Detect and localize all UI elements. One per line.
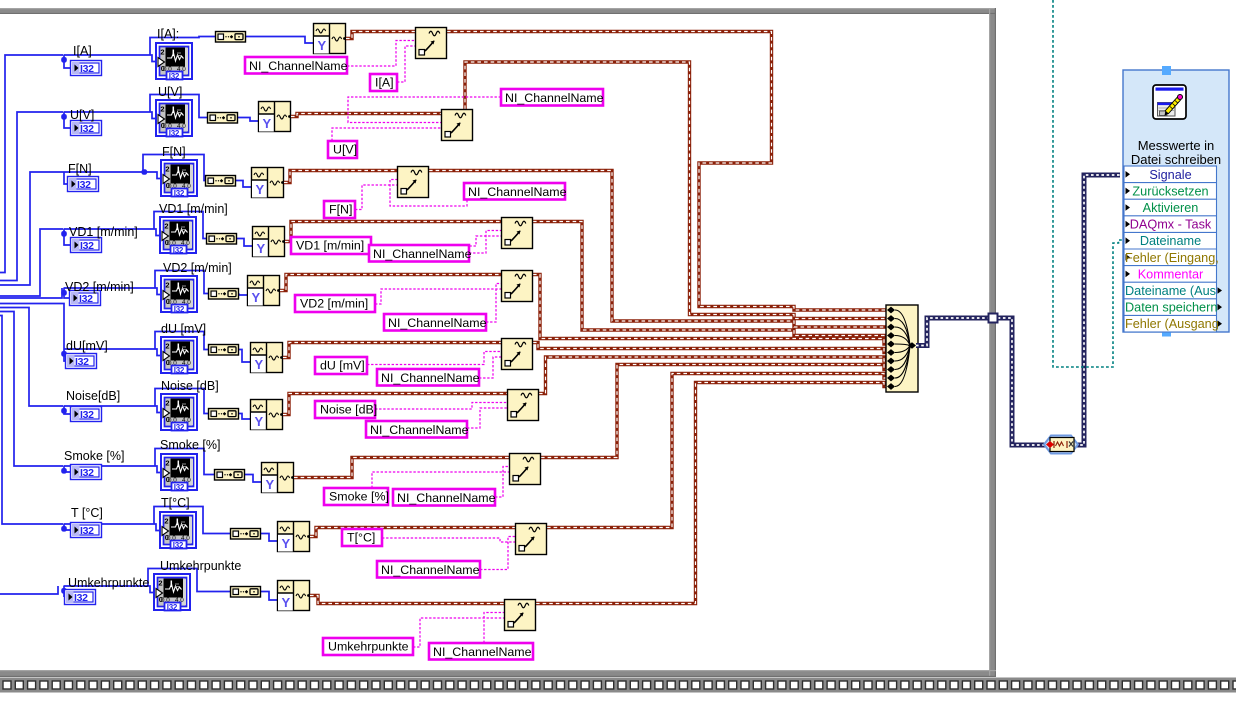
wire row 8 to chart (I32, blue) bbox=[64, 466, 167, 473]
svg-text:U[V]: U[V] bbox=[70, 108, 94, 122]
wire row 4 converter to Y node (I32, blue) bbox=[237, 239, 252, 247]
set dynamic data attributes node row 8 bbox=[510, 454, 541, 485]
Y attribute node row 7 bbox=[251, 400, 283, 430]
string constant "dU [mV]" bbox=[315, 357, 367, 374]
wire row 1 converter to Y node (I32, blue) bbox=[246, 37, 313, 44]
svg-text:Noise[dB]: Noise[dB] bbox=[66, 389, 120, 403]
property constant NI_ChannelName row 6 bbox=[377, 369, 480, 386]
Y attribute node row 3 bbox=[252, 168, 284, 198]
waveform chart T[°C] bbox=[160, 512, 196, 550]
svg-text:VD2 [m/min]: VD2 [m/min] bbox=[65, 280, 134, 294]
wire row 5 NI_ChannelName to set node (string, pink dotted) bbox=[486, 284, 501, 323]
wire row 9 to chart (I32, blue) bbox=[64, 524, 166, 531]
set dynamic data attributes node row 6 bbox=[502, 339, 533, 370]
waveform chart dU [mV] bbox=[161, 337, 197, 375]
wire row 2 NI_ChannelName to set node (string, pink dotted) bbox=[348, 97, 501, 123]
wire row 7 name constant to set node (string, pink dotted) bbox=[375, 403, 507, 410]
wire row 7 over-chart to converter (I32, blue) bbox=[155, 389, 208, 414]
svg-text:VD1 [m/min]: VD1 [m/min] bbox=[69, 225, 138, 239]
wire row 1 NI_ChannelName to set node (string, pink dotted) bbox=[347, 41, 415, 67]
string constant "Smoke [%]" bbox=[324, 488, 389, 505]
svg-text:Kommentar: Kommentar bbox=[1138, 267, 1204, 281]
loop tunnel bbox=[989, 314, 998, 323]
wire row 10 converter to Y node (I32, blue) bbox=[261, 592, 277, 601]
svg-text:U[V]: U[V] bbox=[158, 85, 182, 99]
wire row 7 to chart (I32, blue) bbox=[64, 406, 167, 413]
wire row 4 Y-node to set-attribute node (waveform data, brown dashed) bbox=[285, 222, 501, 242]
Y attribute node row 2 bbox=[259, 102, 291, 132]
property constant NI_ChannelName row 9 bbox=[377, 561, 480, 578]
waveform chart VD2 [m/min] bbox=[161, 276, 197, 314]
convert to dynamic data node row 9 bbox=[231, 529, 261, 540]
convert-to-dynamic-data coercion node bbox=[1044, 436, 1078, 454]
wire row 1 over-chart to converter (I32, blue) bbox=[150, 37, 215, 56]
junction dot row 3 bbox=[142, 169, 148, 175]
svg-text:Umkehrpunkte: Umkehrpunkte bbox=[68, 576, 149, 590]
junction dot row 6 bbox=[61, 351, 67, 357]
svg-text:U[V]: U[V] bbox=[333, 143, 357, 157]
svg-text:Daten speichern: Daten speichern bbox=[1125, 301, 1217, 315]
wire row 4 terminal stub (I32, blue) bbox=[64, 229, 70, 245]
merge signals function bbox=[886, 305, 918, 392]
wire row 10 name constant to set node (string, pink dotted) bbox=[413, 618, 504, 647]
wire row 2 Y-node to set-attribute node (waveform data, brown dashed) bbox=[291, 114, 441, 117]
waveform chart U[V] bbox=[156, 100, 192, 138]
convert to dynamic data node row 5 bbox=[209, 289, 239, 300]
svg-text:Smoke [%]: Smoke [%] bbox=[160, 438, 220, 452]
wire row 7 NI_ChannelName to set node (string, pink dotted) bbox=[467, 408, 507, 428]
svg-text:Umkehrpunkte: Umkehrpunkte bbox=[160, 559, 241, 573]
I32 terminal dU[mV] bbox=[66, 354, 97, 369]
convert to dynamic data node row 10 bbox=[231, 587, 261, 598]
wire row 4 name constant to set node (string, pink dotted) bbox=[371, 236, 501, 246]
convert to dynamic data node row 1 bbox=[216, 32, 246, 43]
string constant "T[°C]" bbox=[342, 529, 382, 546]
wire row 10 set-attribute node to merge (waveform data, brown dashed) bbox=[536, 383, 886, 604]
wire row 1 Y-node to set-attribute node (waveform data, brown dashed) bbox=[346, 32, 415, 39]
wire row 5 to chart (I32, blue) bbox=[64, 288, 167, 295]
I32 terminal U[V] bbox=[71, 121, 102, 136]
svg-text:Smoke [%]: Smoke [%] bbox=[329, 490, 389, 504]
svg-text:NI_ChannelName: NI_ChannelName bbox=[505, 91, 604, 105]
I32 terminal VD2 [m/min] bbox=[70, 291, 101, 306]
wire row 6 set-attribute node to merge (waveform data, brown dashed) bbox=[533, 343, 886, 353]
wire row 6 NI_ChannelName to set node (string, pink dotted) bbox=[479, 357, 501, 378]
property constant NI_ChannelName row 5 bbox=[384, 314, 487, 331]
property constant NI_ChannelName row 2 bbox=[501, 89, 604, 106]
svg-text:Signale: Signale bbox=[1149, 168, 1191, 182]
Y attribute node row 5 bbox=[248, 276, 280, 306]
Y attribute node row 4 bbox=[253, 227, 285, 257]
I32 terminal Umkehrpunkte bbox=[65, 590, 96, 605]
I32 terminal Noise[dB] bbox=[71, 407, 102, 422]
property constant NI_ChannelName row 1 bbox=[245, 57, 348, 74]
wire row 8 name constant to set node (string, pink dotted) bbox=[372, 472, 509, 488]
wire row 4 NI_ChannelName to set node (string, pink dotted) bbox=[469, 231, 501, 254]
wire row 9 NI_ChannelName to set node (string, pink dotted) bbox=[480, 537, 515, 570]
wire row 3 Y-node to set-attribute node (waveform data, brown dashed) bbox=[284, 171, 397, 183]
string constant "U[V]" bbox=[328, 141, 357, 158]
convert to dynamic data node row 2 bbox=[208, 113, 238, 124]
wire row 6 Y-node to set-attribute node (waveform data, brown dashed) bbox=[283, 343, 501, 358]
svg-text:NI_ChannelName: NI_ChannelName bbox=[373, 247, 472, 261]
svg-text:NI_ChannelName: NI_ChannelName bbox=[370, 423, 469, 437]
wire row 10 Y-node to set-attribute node (waveform data, brown dashed) bbox=[310, 596, 504, 604]
svg-text:NI_ChannelName: NI_ChannelName bbox=[433, 645, 532, 659]
wire row 7 terminal stub (I32, blue) bbox=[64, 406, 70, 414]
convert to dynamic data node row 4 bbox=[207, 234, 237, 245]
svg-text:VD1 [m/min]: VD1 [m/min] bbox=[159, 202, 228, 216]
wire row 6 over-chart to converter (I32, blue) bbox=[155, 332, 208, 350]
svg-text:F[N]: F[N] bbox=[68, 162, 92, 176]
svg-text:NI_ChannelName: NI_ChannelName bbox=[397, 491, 496, 505]
string constant "Noise [dB]" bbox=[315, 401, 377, 418]
wire row 3 name constant to set node (string, pink dotted) bbox=[355, 185, 397, 210]
I32 terminal VD1 [m/min] bbox=[71, 238, 102, 253]
svg-text:dU [mV]: dU [mV] bbox=[161, 322, 206, 336]
wire row 3 converter to Y node (I32, blue) bbox=[236, 181, 251, 188]
flat sequence structure top border (film strip) bbox=[0, 678, 1236, 693]
while loop border (grey frame) bbox=[0, 8, 996, 677]
wire bus row9 (I32, blue) bbox=[0, 316, 63, 525]
string constant "I[A]" bbox=[370, 74, 397, 91]
svg-text:VD2 [m/min]: VD2 [m/min] bbox=[300, 297, 368, 311]
set dynamic data attributes node row 9 bbox=[516, 524, 547, 555]
Y attribute node row 6 bbox=[251, 343, 283, 373]
property constant NI_ChannelName row 10 bbox=[429, 643, 533, 660]
svg-text:I[A]: I[A] bbox=[73, 44, 92, 58]
svg-text:T[°C]: T[°C] bbox=[347, 531, 375, 545]
wire row 9 converter to Y node (I32, blue) bbox=[261, 534, 277, 542]
property constant NI_ChannelName row 3 bbox=[464, 183, 567, 200]
property constant NI_ChannelName row 4 bbox=[369, 245, 472, 262]
string constant "VD1 [m/min]" bbox=[291, 237, 371, 254]
junction dot row 1 bbox=[61, 57, 67, 63]
junction dot row 2 bbox=[61, 114, 67, 120]
wire row 1 terminal stub (I32, blue) bbox=[64, 55, 70, 68]
waveform chart Smoke [%] bbox=[161, 454, 197, 492]
svg-text:Datei schreiben: Datei schreiben bbox=[1131, 152, 1221, 167]
svg-text:T[°C]: T[°C] bbox=[161, 496, 190, 510]
svg-text:I[A]:: I[A]: bbox=[157, 27, 179, 41]
Y attribute node row 8 bbox=[262, 463, 294, 493]
wire Dateiname (file path, teal dashed) bbox=[1053, 0, 1123, 367]
string constant "F[N]" bbox=[324, 201, 355, 218]
wire row 9 Y-node to set-attribute node (waveform data, brown dashed) bbox=[310, 528, 515, 537]
svg-text:F[N]: F[N] bbox=[329, 203, 352, 217]
wire row 6 converter to Y node (I32, blue) bbox=[239, 350, 250, 363]
wire row 5 name constant to set node (string, pink dotted) bbox=[375, 289, 501, 304]
wire bus row1 (I32, blue) bbox=[0, 55, 63, 273]
wire row 4 over-chart to converter (I32, blue) bbox=[154, 212, 206, 239]
wire bus row3 (I32, blue) bbox=[0, 172, 144, 285]
wire row 1 to chart (I32, blue) bbox=[64, 55, 162, 62]
wire bus row10 (I32, blue) bbox=[0, 586, 58, 594]
wire row 2 to chart (I32, blue) bbox=[64, 112, 162, 119]
convert to dynamic data node row 8 bbox=[215, 470, 245, 481]
wire row 7 converter to Y node (I32, blue) bbox=[239, 414, 250, 420]
svg-text:Fehler (Ausgang: Fehler (Ausgang bbox=[1125, 317, 1219, 331]
wire merge output to Write-File (dynamic data, navy hatched) bbox=[916, 318, 1049, 445]
wire bus row7 (I32, blue) bbox=[0, 308, 63, 407]
junction dot row 5 bbox=[61, 290, 67, 296]
I32 terminal I[A] bbox=[71, 61, 102, 76]
waveform chart VD1 [m/min] bbox=[160, 217, 196, 255]
wire row 2 converter to Y node (I32, blue) bbox=[238, 118, 258, 122]
wire row 9 set-attribute node to merge (waveform data, brown dashed) bbox=[547, 374, 886, 528]
set dynamic data attributes node row 3 bbox=[398, 167, 429, 198]
junction dot row 7 bbox=[61, 408, 67, 414]
svg-text:I[A]: I[A] bbox=[375, 76, 394, 90]
wire bus row2 (I32, blue) bbox=[0, 112, 63, 281]
set dynamic data attributes node row 5 bbox=[502, 271, 533, 302]
wire row 6 terminal stub (I32, blue) bbox=[64, 349, 65, 361]
set dynamic data attributes node row 7 bbox=[508, 390, 539, 421]
wire row 1 name constant to set node (string, pink dotted) bbox=[397, 46, 415, 82]
wire row 9 name constant to set node (string, pink dotted) bbox=[382, 538, 515, 542]
wire row 6 to chart (I32, blue) bbox=[64, 349, 167, 356]
svg-text:Messwerte in: Messwerte in bbox=[1138, 138, 1215, 153]
svg-text:F[N]: F[N] bbox=[162, 145, 186, 159]
svg-text:NI_ChannelName: NI_ChannelName bbox=[249, 59, 348, 73]
junction dot row 4 bbox=[61, 231, 67, 237]
wire row 7 Y-node to set-attribute node (waveform data, brown dashed) bbox=[283, 394, 507, 415]
wire row 4 set-attribute node to merge (waveform data, brown dashed) bbox=[533, 222, 886, 336]
convert to dynamic data node row 6 bbox=[209, 345, 239, 356]
svg-text:Fehler (Eingang,: Fehler (Eingang, bbox=[1125, 251, 1219, 265]
wire bus row4 (I32, blue) bbox=[0, 229, 63, 296]
set dynamic data attributes node row 10 bbox=[505, 600, 536, 631]
convert to dynamic data node row 7 bbox=[209, 409, 239, 420]
wire row 3 NI_ChannelName to set node (string, pink dotted) bbox=[390, 180, 467, 207]
junction dot row 10 bbox=[61, 588, 67, 594]
Y attribute node row 1 bbox=[314, 24, 346, 54]
svg-text:VD2 [m/min]: VD2 [m/min] bbox=[163, 261, 232, 275]
svg-text:Aktivieren: Aktivieren bbox=[1143, 201, 1199, 215]
svg-text:T [°C]: T [°C] bbox=[71, 506, 103, 520]
wire bus row5 (I32, blue) bbox=[0, 288, 62, 298]
wire row 5 set-attribute node to merge (waveform data, brown dashed) bbox=[533, 275, 886, 345]
svg-text:Noise [dB]: Noise [dB] bbox=[320, 403, 377, 417]
wire row 6 name constant to set node (string, pink dotted) bbox=[367, 352, 501, 365]
I32 terminal Smoke [%] bbox=[71, 465, 102, 480]
waveform chart I[A]: bbox=[156, 43, 192, 81]
wire row 5 Y-node to set-attribute node (waveform data, brown dashed) bbox=[280, 275, 501, 291]
property constant NI_ChannelName row 7 bbox=[366, 421, 469, 438]
wire row 8 NI_ChannelName to set node (string, pink dotted) bbox=[495, 467, 509, 498]
wire bus row6 (I32, blue) bbox=[0, 304, 64, 350]
wire row 10 NI_ChannelName to set node (string, pink dotted) bbox=[484, 613, 504, 644]
set dynamic data attributes node row 2 bbox=[442, 110, 473, 141]
wire row 2 name constant to set node (string, pink dotted) bbox=[332, 128, 441, 141]
wire row 3 over-chart to converter (I32, blue) bbox=[143, 155, 205, 181]
svg-text:NI_ChannelName: NI_ChannelName bbox=[388, 316, 487, 330]
wire row 3 terminal stub (I32, blue) bbox=[64, 172, 67, 184]
wire row 8 Y-node to set-attribute node (waveform data, brown dashed) bbox=[294, 458, 509, 478]
wire row 9 terminal stub (I32, blue) bbox=[64, 524, 70, 530]
wire row 8 terminal stub (I32, blue) bbox=[64, 466, 70, 472]
wire row 9 over-chart to converter (I32, blue) bbox=[154, 507, 230, 534]
I32 terminal T [°C] bbox=[71, 523, 102, 538]
wire row 4 to chart (I32, blue) bbox=[64, 229, 166, 236]
waveform chart Umkehrpunkte bbox=[154, 574, 190, 612]
wire row 3 to chart (I32, blue) bbox=[144, 172, 167, 179]
svg-text:NI_ChannelName: NI_ChannelName bbox=[468, 185, 567, 199]
express VI: Messwerte in Datei schreiben (Write to Measurement File) bbox=[1123, 66, 1229, 337]
svg-text:dU[mV]: dU[mV] bbox=[66, 339, 108, 353]
set dynamic data attributes node row 1 bbox=[416, 28, 447, 59]
wire row 3 set-attribute node to merge (waveform data, brown dashed) bbox=[429, 171, 886, 328]
svg-text:DAQmx - Task: DAQmx - Task bbox=[1130, 218, 1212, 232]
wire bus row8 (I32, blue) bbox=[0, 312, 63, 467]
I32 terminal F[N] bbox=[68, 177, 99, 192]
wire row 2 set-attribute node to merge (waveform data, brown dashed) bbox=[465, 62, 886, 319]
svg-text:Smoke [%]: Smoke [%] bbox=[64, 449, 124, 463]
wire row 5 terminal stub (I32, blue) bbox=[64, 288, 69, 298]
svg-text:Umkehrpunkte: Umkehrpunkte bbox=[328, 640, 409, 654]
set dynamic data attributes node row 4 bbox=[502, 218, 533, 249]
wire row 8 converter to Y node (I32, blue) bbox=[245, 475, 261, 483]
wire row 5 converter to Y node (I32, blue) bbox=[239, 294, 247, 296]
svg-text:Dateiname: Dateiname bbox=[1140, 234, 1201, 248]
wire row 2 terminal stub (I32, blue) bbox=[64, 112, 70, 128]
wire row 1 set-attribute node to merge (waveform data, brown dashed) bbox=[447, 32, 886, 311]
junction dot row 8 bbox=[61, 468, 67, 474]
waveform chart F[N] bbox=[161, 160, 197, 198]
wire row 10 terminal stub (I32, blue) bbox=[63, 586, 65, 597]
svg-text:VD1 [m/min]: VD1 [m/min] bbox=[296, 239, 364, 253]
wire row 8 over-chart to converter (I32, blue) bbox=[155, 449, 214, 475]
waveform chart Noise [dB] bbox=[161, 394, 197, 432]
svg-text:NI_ChannelName: NI_ChannelName bbox=[381, 563, 480, 577]
svg-text:Noise [dB]: Noise [dB] bbox=[161, 379, 219, 393]
wire row 5 over-chart to converter (I32, blue) bbox=[155, 271, 208, 294]
convert to dynamic data node row 3 bbox=[206, 176, 236, 187]
svg-text:dU [mV]: dU [mV] bbox=[320, 359, 365, 373]
Y attribute node row 9 bbox=[278, 522, 310, 552]
property constant NI_ChannelName row 8 bbox=[393, 489, 496, 506]
wire row 8 set-attribute node to merge (waveform data, brown dashed) bbox=[541, 365, 886, 458]
wire row 10 to chart (I32, blue) bbox=[64, 586, 160, 593]
svg-text:NI_ChannelName: NI_ChannelName bbox=[381, 371, 480, 385]
wire row 7 set-attribute node to merge (waveform data, brown dashed) bbox=[539, 357, 886, 394]
svg-text:Dateiname (Aus: Dateiname (Aus bbox=[1125, 284, 1216, 298]
wire row 2 over-chart to converter (I32, blue) bbox=[150, 95, 207, 118]
wire row 10 over-chart to converter (I32, blue) bbox=[148, 569, 230, 592]
svg-text:Zurücksetzen: Zurücksetzen bbox=[1132, 184, 1208, 198]
junction dot row 9 bbox=[61, 526, 67, 532]
string constant "VD2 [m/min]" bbox=[295, 295, 375, 312]
Y attribute node row 10 bbox=[278, 581, 310, 611]
string constant "Umkehrpunkte" bbox=[323, 638, 413, 655]
